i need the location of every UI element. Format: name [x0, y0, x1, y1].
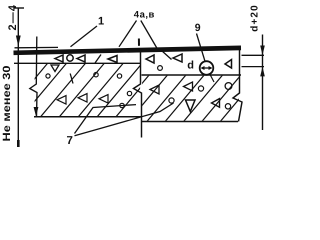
right slab aggregate circle: [225, 83, 232, 90]
right slab aggregate triangle: [212, 99, 220, 108]
svg-text:4а,в: 4а,в: [134, 10, 155, 21]
right band symbol circle: [158, 66, 163, 71]
right slab aggregate circle: [169, 98, 174, 103]
right block right edge with Z-jog: [233, 47, 242, 122]
svg-text:d+20: d+20: [249, 5, 260, 32]
pipe diameter arrow: [202, 67, 211, 69]
left band small hatch stroke: [95, 55, 101, 64]
svg-text:d: d: [187, 60, 194, 72]
right slab aggregate circle: [225, 104, 230, 109]
svg-text:Не менее 30: Не менее 30: [1, 65, 13, 141]
right block bottom line: [142, 121, 239, 123]
left band symbol triangle: [108, 56, 117, 63]
right block hatch: [110, 75, 259, 122]
left slab aggregate circle: [127, 91, 131, 95]
block junction edge with Z-jog (x=141): [134, 49, 142, 138]
left band symbol triangle: [55, 55, 63, 62]
leader A for label 7: [75, 105, 137, 134]
right dimension line: [262, 35, 264, 131]
svg-text:1: 1: [98, 15, 104, 27]
left slab aggregate dash: [70, 74, 73, 84]
left slab aggregate triangle under band: [51, 65, 59, 72]
left slab aggregate circle: [120, 103, 124, 107]
slab left break edge L2 with Z-jog: [30, 37, 37, 118]
blob at bottom of L1: [17, 140, 20, 147]
right band symbol triangle: [173, 54, 182, 62]
right slab aggregate triangle: [150, 85, 159, 94]
left slab aggregate circle: [46, 74, 50, 78]
right band symbol triangle: [225, 60, 232, 69]
hatch stub below pipe: [210, 74, 215, 83]
arrowhead up to bottom extension: [260, 67, 265, 77]
leader legs (lambda) for 4а,в: [119, 21, 137, 47]
arrowhead on L2 pointing down: [34, 107, 39, 117]
extension line bottom: [242, 66, 265, 68]
thin top line (carpet edge): [15, 46, 59, 48]
left slab aggregate triangle: [78, 94, 87, 102]
dimension line L1 (left, x=19): [17, 8, 19, 146]
hatch dash in band below carpet: [162, 51, 172, 60]
arrowhead down to top extension: [260, 46, 265, 56]
left slab aggregate circle: [94, 73, 98, 77]
left band symbol circle: [67, 55, 73, 61]
left slab bottom line: [34, 116, 141, 118]
right slab aggregate circle: [198, 86, 203, 91]
right band symbol triangle: [146, 55, 154, 63]
right slab aggregate triangle: [186, 100, 196, 112]
left slab hatch: [3, 63, 161, 117]
svg-text:9: 9: [195, 22, 201, 34]
right slab aggregate triangle: [184, 82, 193, 91]
arrowhead on L1 pointing down: [16, 36, 21, 47]
pipe section circle 9: [200, 61, 214, 75]
left screed band bottom line: [14, 62, 141, 64]
left slab aggregate triangle: [99, 95, 108, 103]
tick at top of L1: [14, 7, 24, 9]
waterproofing carpet (thick line): [14, 48, 242, 53]
left slab aggregate circle: [117, 74, 121, 78]
leader B for label 7: [75, 103, 174, 136]
left band symbol triangle: [77, 55, 85, 62]
extension line top: [242, 54, 265, 56]
leader for label 1: [71, 26, 98, 47]
svg-text:7: 7: [67, 135, 73, 147]
left slab aggregate triangle: [57, 96, 66, 104]
right block band bottom line: [142, 74, 242, 76]
small tick i above carpet: [138, 39, 140, 46]
leader for label 9: [197, 34, 206, 62]
